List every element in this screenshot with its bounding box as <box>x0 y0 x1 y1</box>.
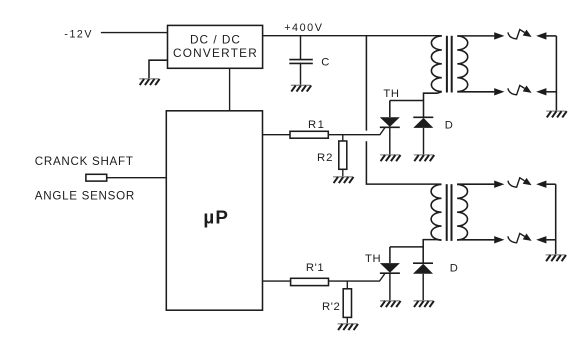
wire D anode to ground (bottom) <box>422 274 424 301</box>
wire R'1 to thyristor TH gate (bottom) <box>329 274 385 281</box>
wire right vertical (top) <box>555 36 557 111</box>
svg-text:TH: TH <box>365 253 381 265</box>
svg-text:R'2: R'2 <box>322 301 340 313</box>
ground G5 below D (top) <box>414 155 434 161</box>
wire -12V to DC/DC converter input <box>101 32 168 34</box>
wire to thyristor TH anode (top) <box>389 101 391 118</box>
wire TH cathode to ground (bottom) <box>389 273 391 300</box>
svg-text:TH: TH <box>383 88 399 100</box>
resistor R1 <box>290 131 328 138</box>
capacitor C plates <box>289 59 313 61</box>
transformer T2 secondary winding <box>457 184 467 240</box>
svg-text:ANGLE SENSOR: ANGLE SENSOR <box>35 189 135 202</box>
wire R'2 to ground <box>346 317 348 323</box>
wire TH cathode to ground (top) <box>389 127 391 154</box>
svg-text:CONVERTER: CONVERTER <box>173 46 258 60</box>
svg-text:µP: µP <box>203 207 229 228</box>
svg-text:DC / DC: DC / DC <box>190 32 241 46</box>
svg-text:C: C <box>321 56 329 68</box>
wire +400V down-feed upper segment <box>365 36 367 131</box>
wire uP to resistor R1 <box>263 134 291 136</box>
wire D anode to ground (top) <box>423 128 425 154</box>
ground G8 below TH (bottom) <box>380 301 400 307</box>
spark gap SG4 (T2 secondary bottom) <box>457 239 494 241</box>
svg-text:-12V: -12V <box>64 29 93 41</box>
spark gap SG2 (T1 secondary bottom) <box>457 91 494 93</box>
transformer T2 core <box>446 184 448 241</box>
wire junction to resistor R2 <box>342 135 344 141</box>
sensor S1 crank shaft angle sensor <box>86 174 107 181</box>
diode D (bottom) <box>413 262 433 264</box>
svg-text:+400V: +400V <box>284 22 323 34</box>
transformer T1 core <box>446 36 448 93</box>
ground G4 below TH (top) <box>380 155 400 161</box>
ground G3 below R2 <box>333 177 353 183</box>
diode D (top) <box>413 116 433 118</box>
ground G6 right (top) <box>546 111 566 117</box>
resistor R2 <box>339 141 347 169</box>
box microprocessor uP <box>166 111 262 310</box>
wire R1 to thyristor TH gate <box>328 128 385 135</box>
svg-text:R2: R2 <box>317 152 333 164</box>
wire T1 primary bottom to D1 cathode <box>424 92 442 118</box>
svg-text:R1: R1 <box>308 119 325 131</box>
spark gap SG3 (T2 secondary top) <box>457 183 494 185</box>
ground G2 below capacitor C <box>291 85 311 91</box>
wire sensor to microprocessor <box>107 177 167 179</box>
ground G10 right (bottom) <box>546 255 566 261</box>
transformer T1 secondary winding <box>457 36 467 92</box>
ground G1 at DC/DC input <box>139 79 159 85</box>
ground G7 below R'2 <box>338 324 358 330</box>
wire R2 to ground <box>342 169 344 176</box>
svg-text:D: D <box>450 263 458 275</box>
wire T2 primary bottom to D cathode (bottom) <box>423 240 441 264</box>
resistor R'2 <box>343 289 351 318</box>
box DC/DC converter U1 <box>168 25 263 68</box>
wire DC/DC ground branch <box>149 60 168 78</box>
thyristor TH (top) <box>380 117 400 127</box>
resistor R'1 <box>291 278 329 285</box>
svg-text:D: D <box>445 120 453 132</box>
wire +400V to capacitor C <box>300 36 302 60</box>
wire TH anode rail (bottom) <box>390 246 423 248</box>
wire right vertical (bottom) <box>555 184 557 254</box>
wire +400V rail <box>263 35 442 37</box>
wire junction to resistor R'2 <box>346 281 348 289</box>
svg-text:R'1: R'1 <box>306 262 324 274</box>
svg-text:CRANCK SHAFT: CRANCK SHAFT <box>35 155 134 168</box>
wire TH anode rail (top) <box>390 100 424 102</box>
wire DC/DC converter to microprocessor <box>229 68 231 111</box>
ground G9 below D (bottom) <box>414 301 434 307</box>
transformer T2 primary winding <box>431 184 441 240</box>
thyristor TH (bottom) <box>380 263 400 273</box>
wire capacitor C to ground <box>300 63 302 84</box>
wire uP to resistor R'1 <box>263 280 291 282</box>
transformer T1 primary winding <box>431 36 441 92</box>
wire +400V down-feed lower segment and run to T2 primary <box>366 141 441 184</box>
wire to thyristor TH anode (bottom) <box>389 247 391 263</box>
spark gap SG1 (T1 secondary top) <box>457 35 494 37</box>
